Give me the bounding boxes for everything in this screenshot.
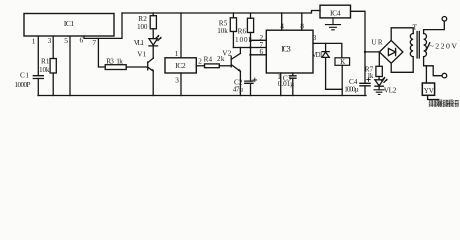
wire R5 bottom to pin7 row — [232, 32, 234, 48]
svg-text:R1: R1 — [41, 57, 50, 65]
svg-text:R2: R2 — [138, 15, 147, 23]
svg-text:100: 100 — [137, 23, 148, 31]
svg-text:T: T — [413, 23, 418, 32]
wire R4 to V2 base — [219, 65, 231, 67]
svg-text:IC1: IC1 — [64, 19, 75, 28]
wire bridge bottom loop — [391, 57, 413, 73]
LED VL1 — [149, 39, 158, 46]
svg-text:1: 1 — [175, 50, 179, 58]
svg-text:C1: C1 — [20, 72, 29, 80]
wire IC3 pin4 to rail — [281, 13, 283, 30]
wire IC2 pin3 to rail — [180, 73, 182, 96]
wire YV top — [425, 66, 427, 83]
svg-text:IC4: IC4 — [330, 8, 341, 17]
wire V1 collector to LED — [152, 46, 154, 58]
wire IC3 pin2 — [251, 39, 267, 41]
wire pin3 down — [52, 37, 54, 96]
wire V1 emitter to rail — [152, 71, 154, 96]
terminal circle top — [442, 17, 447, 22]
wire pin6 stub tied to rail drop — [84, 13, 122, 38]
wire pin7 down to R3 — [98, 38, 105, 67]
C4 plus sign — [367, 78, 370, 81]
wire R3 to V1 base — [126, 66, 148, 68]
svg-text:IC3: IC3 — [281, 44, 291, 54]
junction dot DC bus — [364, 51, 366, 53]
IC1 — [24, 14, 114, 37]
wire YV bottom hook — [428, 95, 439, 99]
wire IC3 pin3 to relay — [313, 43, 342, 57]
svg-text:1k: 1k — [116, 58, 123, 66]
svg-text:7: 7 — [92, 38, 96, 47]
IC2 — [165, 58, 196, 73]
svg-text:V1: V1 — [137, 50, 146, 58]
svg-text:1: 1 — [32, 36, 36, 45]
resistor R3 — [105, 65, 126, 70]
wire IC3 pin7 row from R5 — [233, 47, 266, 49]
wire C1 to rail — [37, 79, 39, 96]
top rail — [122, 11, 320, 14]
bridge rectifier UR — [379, 40, 403, 63]
wire C2 to rail — [250, 83, 252, 95]
svg-text:VL1: VL1 — [134, 39, 145, 47]
wire primary bottom — [424, 57, 442, 76]
svg-text:1k: 1k — [367, 72, 374, 80]
resistor R1 — [50, 59, 56, 74]
wire VD1 bottom to K wire — [326, 88, 343, 90]
svg-text:3: 3 — [48, 36, 52, 45]
wire IC3 pin6 — [251, 54, 267, 56]
wire V2 collector up — [239, 48, 241, 54]
wire primary top to terminal — [424, 21, 445, 33]
wire DC bus to bridge — [365, 51, 379, 53]
switch tick — [426, 43, 430, 50]
svg-text:R4: R4 — [204, 55, 213, 63]
wire IC4 right down to C4 — [351, 11, 366, 95]
wire C3 column — [292, 73, 294, 96]
svg-text:V2: V2 — [222, 49, 231, 57]
wire LED to R2 — [152, 29, 154, 39]
capacitor C2 — [245, 81, 253, 83]
svg-text:UR: UR — [372, 39, 383, 47]
terminal circle lower — [442, 73, 447, 78]
resistor R4 — [205, 64, 220, 68]
diode VD1 — [322, 43, 329, 89]
wire R6 top to rail — [250, 13, 252, 18]
resistor R6 — [247, 18, 253, 32]
wire IC3 pin8 to rail — [301, 13, 303, 30]
wire IC3 pin1 to rail — [280, 73, 282, 96]
IC4 — [320, 5, 351, 18]
svg-text:100k: 100k — [235, 36, 252, 44]
svg-text:0.01µ: 0.01µ — [278, 80, 295, 88]
UR inner diode — [388, 48, 395, 55]
wire bridge top to transformer secondary — [391, 28, 413, 41]
wire pin1 down — [37, 37, 39, 76]
svg-text:3: 3 — [175, 76, 179, 84]
capacitor C3 — [290, 76, 296, 78]
svg-text:1000P: 1000P — [15, 81, 31, 89]
wire IC2 pin2 to R4 — [196, 65, 204, 67]
svg-text:YV: YV — [424, 87, 434, 95]
svg-text:IC2: IC2 — [175, 61, 186, 70]
transistor V1 — [148, 58, 154, 71]
svg-text:VD1: VD1 — [312, 52, 323, 59]
junction dot pin6 — [249, 54, 251, 56]
svg-text:1000µ: 1000µ — [344, 86, 359, 94]
wire R2 top to rail — [152, 13, 154, 16]
svg-text:R3: R3 — [106, 58, 114, 66]
svg-text:3: 3 — [313, 34, 317, 42]
svg-text:5: 5 — [64, 36, 68, 45]
wire V2 emitter to rail — [239, 71, 241, 95]
svg-text:10k: 10k — [39, 66, 50, 74]
wire IC2 pin1 to rail — [180, 13, 182, 58]
relay coil K — [335, 58, 350, 66]
wire K bottom to rail — [341, 65, 343, 95]
ground below VL2 — [374, 90, 384, 95]
C2 plus sign — [253, 78, 257, 82]
resistor R7 — [376, 66, 382, 76]
wire R7 tap — [378, 52, 380, 66]
capacitor C4 — [360, 83, 370, 86]
IC3 — [266, 30, 313, 73]
svg-text:10k: 10k — [217, 27, 228, 35]
svg-text:6: 6 — [80, 36, 84, 45]
transistor V2 — [231, 53, 240, 71]
resistor R5 — [230, 18, 236, 32]
transformer T primary winding — [424, 34, 427, 57]
LED VL2 — [375, 80, 383, 90]
wire pin5 down — [69, 37, 71, 96]
solenoid valve YV — [422, 83, 434, 95]
wire R6 bottom down through pin rows — [250, 33, 252, 82]
svg-text:2: 2 — [198, 57, 202, 65]
svg-text:R6: R6 — [238, 27, 247, 35]
transformer core — [417, 32, 419, 59]
svg-text:~220V: ~220V — [430, 42, 458, 51]
wire R5 top to rail — [232, 13, 234, 18]
ground below IC4 — [326, 18, 341, 30]
svg-text:47µ: 47µ — [233, 86, 244, 94]
capacitor C1 — [33, 76, 43, 79]
wire R7 to VL2 — [378, 77, 380, 80]
svg-text:VL2: VL2 — [384, 86, 397, 94]
resistor R2 — [150, 16, 156, 29]
junction dot pin7 — [249, 46, 251, 48]
bottom rail — [38, 95, 366, 97]
transformer T secondary winding — [410, 34, 413, 57]
